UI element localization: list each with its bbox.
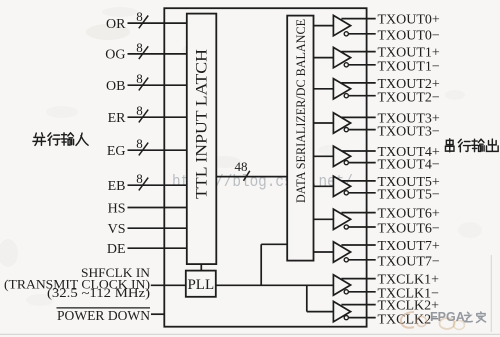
svg-text:TXOUT5−: TXOUT5− bbox=[378, 188, 440, 203]
svg-text:TXOUT1−: TXOUT1− bbox=[378, 60, 440, 75]
svg-text:EG: EG bbox=[107, 144, 126, 159]
svg-text:TXOUT2−: TXOUT2− bbox=[378, 90, 440, 105]
svg-text:DATA SERIALIZER/DC BALANCE: DATA SERIALIZER/DC BALANCE bbox=[293, 19, 308, 203]
svg-text:8: 8 bbox=[136, 136, 143, 151]
svg-text:(32.5 ~112 MHz): (32.5 ~112 MHz) bbox=[47, 285, 150, 300]
svg-text:POWER DOWN: POWER DOWN bbox=[57, 309, 150, 324]
svg-text:TXOUT7+: TXOUT7+ bbox=[378, 239, 440, 254]
svg-text:TXOUT7−: TXOUT7− bbox=[378, 255, 440, 270]
svg-text:TXCLK1+: TXCLK1+ bbox=[378, 273, 440, 288]
svg-text:TXOUT6−: TXOUT6− bbox=[378, 222, 440, 237]
svg-text:OR: OR bbox=[106, 17, 126, 32]
svg-text:DE: DE bbox=[107, 242, 126, 257]
svg-text:TXOUT1+: TXOUT1+ bbox=[378, 46, 440, 61]
svg-text:48: 48 bbox=[235, 159, 248, 174]
svg-text:8: 8 bbox=[136, 9, 143, 24]
svg-text:PLL: PLL bbox=[187, 277, 214, 293]
svg-text:TTL INPUT LATCH: TTL INPUT LATCH bbox=[194, 49, 211, 199]
svg-text:8: 8 bbox=[136, 171, 143, 186]
svg-text:FPGA: FPGA bbox=[430, 310, 465, 324]
svg-text:EB: EB bbox=[108, 179, 126, 194]
svg-text:TXOUT0+: TXOUT0+ bbox=[378, 13, 440, 28]
svg-text:8: 8 bbox=[136, 103, 143, 118]
svg-text:8: 8 bbox=[136, 71, 143, 86]
svg-text:TXOUT4−: TXOUT4− bbox=[378, 157, 440, 172]
svg-text:VS: VS bbox=[108, 222, 126, 237]
svg-text:TXOUT6+: TXOUT6+ bbox=[378, 207, 440, 222]
svg-text:ER: ER bbox=[108, 111, 127, 126]
svg-text:8: 8 bbox=[136, 40, 143, 55]
svg-text:OG: OG bbox=[105, 48, 125, 63]
svg-text:TXOUT3−: TXOUT3− bbox=[378, 124, 440, 139]
svg-text:TXOUT0−: TXOUT0− bbox=[378, 29, 440, 44]
svg-text:HS: HS bbox=[108, 201, 126, 216]
svg-text:OB: OB bbox=[106, 79, 125, 94]
